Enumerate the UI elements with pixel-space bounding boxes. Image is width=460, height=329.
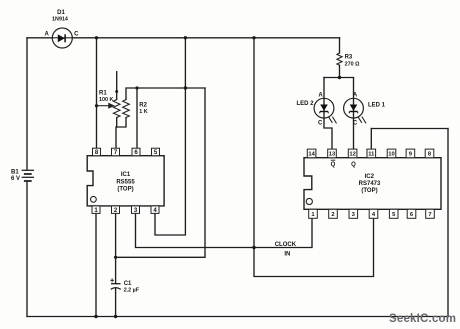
wire LED2 anode <box>323 78 325 99</box>
IC1 pin 8 box <box>93 148 101 156</box>
LED 2 <box>314 98 336 123</box>
LED 1 <box>344 98 366 123</box>
svg-text:(TOP): (TOP) <box>361 188 377 194</box>
wire pin6 riser <box>136 88 138 148</box>
node CLOCK junction <box>252 246 255 249</box>
potentiometer R1 wiper arrow <box>97 104 114 108</box>
IC2 pin 4 box <box>369 209 378 218</box>
IC1 pin 4 box <box>151 206 159 214</box>
IC2 pin 12 box <box>348 149 357 158</box>
svg-text:CLOCK: CLOCK <box>275 242 297 248</box>
IC2 pin 10 box <box>387 149 396 158</box>
IC2 pin 6 box <box>407 209 416 218</box>
C1 plus sign <box>110 278 114 282</box>
wire top rail left segment <box>27 37 52 39</box>
wire R3 top lead <box>339 38 341 53</box>
junction Vcc rail / pin8 wire <box>95 36 98 39</box>
wire LED2 internal <box>323 99 325 118</box>
wire C1 bottom lead <box>115 289 117 317</box>
IC1 pin1 index circle <box>91 196 97 202</box>
wire LED1 anode <box>353 78 355 99</box>
wire pin11 riser <box>370 129 372 150</box>
resistor R3 zigzag <box>337 53 342 65</box>
svg-text:1N914: 1N914 <box>52 17 68 23</box>
wire IC1 pin1 to bottom rail <box>95 213 97 316</box>
svg-text:A: A <box>45 31 50 37</box>
svg-text:R3: R3 <box>345 55 353 61</box>
resistor R2 zigzag <box>123 100 130 118</box>
junction R2 line / reset wire <box>184 86 187 89</box>
junction Vcc rail / clock drop wire <box>252 36 255 39</box>
junction pin2 / C1 top <box>114 256 117 259</box>
IC2 pin1 index circle <box>306 198 312 204</box>
wire R2 line down to pin2 row <box>116 88 205 257</box>
wire IC1 pin2 drop <box>115 213 117 257</box>
IC2 pin 13 box <box>328 149 337 158</box>
svg-text:270 Ω: 270 Ω <box>345 62 360 68</box>
svg-text:IN: IN <box>284 252 290 258</box>
svg-text:C: C <box>353 121 358 127</box>
svg-text:A: A <box>318 93 323 99</box>
IC1 pin 7 box <box>112 148 120 156</box>
wire R2 top horizontal <box>126 88 205 100</box>
svg-text:13: 13 <box>329 152 336 158</box>
wire R1 top stub <box>116 72 118 100</box>
wire left vertical from rail to battery <box>26 38 28 171</box>
svg-text:6 V: 6 V <box>11 176 20 182</box>
junction R1 top stub <box>115 90 118 93</box>
svg-text:Q: Q <box>331 162 336 168</box>
wire top rail right segment <box>72 37 339 39</box>
IC1 pin 2 box <box>112 206 120 214</box>
IC1 pin 5 box <box>152 148 160 156</box>
svg-text:7: 7 <box>428 212 431 218</box>
IC2 pin 2 box <box>329 209 338 218</box>
svg-text:RS555: RS555 <box>116 179 135 185</box>
svg-text:2.2 µF: 2.2 µF <box>124 288 140 294</box>
IC1 pin 6 box <box>132 148 140 156</box>
wire IC1 pin3 clock line <box>136 213 313 247</box>
wire top rail to clock junction <box>253 38 255 248</box>
battery B1 <box>22 170 34 181</box>
IC1 pin 3 box <box>132 206 140 214</box>
svg-text:R2: R2 <box>139 103 147 109</box>
svg-text:D1: D1 <box>57 10 65 16</box>
wire R3 bottom lead <box>339 65 341 77</box>
svg-text:LED 1: LED 1 <box>368 103 386 109</box>
IC2 pin 5 box <box>389 209 398 218</box>
svg-text:A: A <box>353 93 358 99</box>
IC2 pin 3 box <box>349 209 358 218</box>
wire Vcc vertical to IC1 pin4 <box>155 38 185 235</box>
wire pin11 loop horizontal <box>371 128 448 130</box>
wire LED1 cathode to pin12 <box>353 118 355 149</box>
svg-text:100 K: 100 K <box>99 97 113 103</box>
svg-text:C: C <box>74 31 79 37</box>
junction R1 wiper / pin8 wire <box>95 104 98 107</box>
IC2 pin 11 box <box>367 149 376 158</box>
wire clock junction to IC2 pin4 <box>254 218 374 276</box>
IC2 pin 9 box <box>406 149 415 158</box>
IC2 pin 8 box <box>425 149 434 158</box>
svg-text:11: 11 <box>368 152 375 158</box>
junction R2 line / pin6 riser <box>135 86 138 89</box>
wire LED2 cathode jog to pin13 <box>324 118 332 149</box>
wire right vertical <box>447 129 449 317</box>
IC1 body <box>87 156 164 206</box>
junction R3 / LED rail <box>338 76 341 79</box>
svg-text:1 K: 1 K <box>139 109 147 115</box>
svg-text:10: 10 <box>388 152 394 158</box>
svg-text:SeekIC.com: SeekIC.com <box>389 313 456 325</box>
svg-text:RS7473: RS7473 <box>359 181 381 187</box>
junction C1 / ground rail <box>114 315 117 318</box>
IC2 pin 7 box <box>426 209 435 218</box>
resistor R1 zigzag <box>113 100 120 118</box>
wire battery to bottom rail <box>26 181 28 317</box>
wire C1 top lead <box>115 257 117 283</box>
junction pin1 / ground rail <box>94 315 97 318</box>
svg-text:R1: R1 <box>99 91 107 97</box>
IC2 body <box>304 158 441 210</box>
svg-text:(TOP): (TOP) <box>117 187 133 193</box>
wire R1 bottom <box>116 118 118 128</box>
wire pin7 riser <box>115 127 117 148</box>
wire LED1 internal <box>353 99 355 118</box>
LED1 light rays <box>358 117 362 123</box>
LED2 light rays <box>328 117 332 123</box>
svg-text:Q: Q <box>351 162 356 168</box>
svg-text:LED 2: LED 2 <box>297 101 315 107</box>
svg-text:C: C <box>318 121 323 127</box>
wire R2 bottom jog <box>117 118 126 128</box>
IC1 pin 1 box <box>92 206 100 214</box>
IC2 pin 1 box <box>309 209 318 218</box>
diode D1 <box>52 28 72 48</box>
svg-text:IC2: IC2 <box>365 174 375 180</box>
junction Vcc rail / reset wire <box>184 36 187 39</box>
svg-text:C1: C1 <box>124 281 132 287</box>
Q-bar overline <box>331 159 335 161</box>
capacitor C1 <box>111 284 121 290</box>
svg-text:14: 14 <box>308 152 315 158</box>
wire Vcc to IC1 pin8 <box>96 38 98 148</box>
wire bottom rail <box>27 316 448 318</box>
IC2 pin 14 box <box>307 149 316 158</box>
svg-text:12: 12 <box>349 152 355 158</box>
svg-text:IC1: IC1 <box>121 172 131 178</box>
svg-text:2: 2 <box>331 212 334 218</box>
wire LED feed rail <box>324 77 354 79</box>
svg-text:B1: B1 <box>11 170 19 176</box>
